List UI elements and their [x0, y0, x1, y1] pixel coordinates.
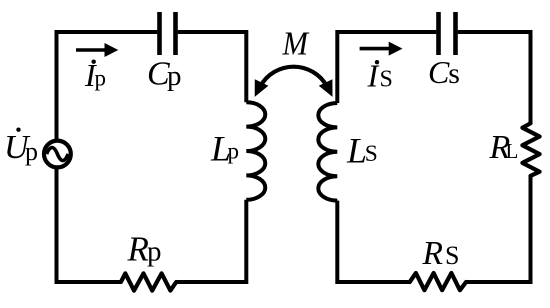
svg-text:S: S	[380, 67, 393, 93]
capacitor Cs plate right	[453, 12, 458, 55]
current arrow Is	[360, 47, 391, 51]
inductor Lp coil	[246, 102, 265, 200]
wire Rp left lead to bottom-left corner up to source bottom	[57, 168, 121, 282]
svg-text:p: p	[147, 236, 162, 268]
svg-text:C: C	[428, 54, 450, 90]
svg-text:M: M	[282, 26, 310, 63]
AC source Up circle	[44, 141, 71, 168]
svg-text:R: R	[422, 235, 443, 272]
current arrow Ip	[76, 48, 108, 52]
resistor RL vertical zigzag	[522, 123, 539, 176]
capacitor Cp plate left	[157, 12, 162, 55]
wire RL bottom to bottom-right corner to Rs right lead	[466, 176, 530, 282]
capacitor Cp plate right	[173, 12, 178, 55]
arrowhead right of M arc	[319, 79, 333, 97]
wire Cp right to top-right of left loop down to Lp coil	[178, 32, 247, 102]
arrowhead left of M arc	[255, 79, 269, 97]
wire Cs right to top-right corner down to RL top	[458, 32, 531, 123]
resistor Rp zigzag	[121, 273, 176, 290]
svg-text:p: p	[25, 137, 38, 166]
wire Rs left lead to bottom-left corner of right loop up to Ls bottom	[337, 201, 409, 282]
svg-text:L: L	[506, 139, 519, 163]
svg-text:S: S	[445, 241, 459, 270]
svg-text:R: R	[127, 230, 149, 269]
svg-text:p: p	[95, 66, 107, 91]
capacitor Cs plate left	[436, 12, 441, 55]
svg-text:s: s	[448, 57, 460, 90]
wire right-loop: Ls top up to top-left corner to Cs left	[337, 32, 436, 103]
AC source Up sine wave	[47, 148, 69, 161]
svg-text:p: p	[228, 139, 240, 164]
resistor Rs zigzag	[410, 273, 466, 290]
wire Lp bottom to bottom-right corner of left loop to Rp right lead	[176, 200, 246, 282]
svg-text:S: S	[365, 141, 378, 167]
wire left-loop: source top to top-left corner to Cp left	[57, 32, 158, 141]
inductor Ls coil	[318, 103, 337, 201]
svg-text:p: p	[167, 60, 182, 92]
mutual inductance arrow M arc	[261, 67, 327, 86]
